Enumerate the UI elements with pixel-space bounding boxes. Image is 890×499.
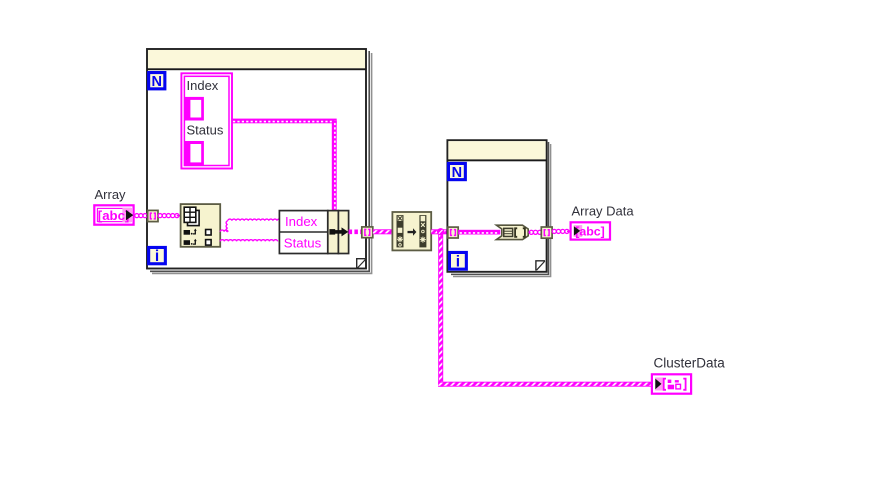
wire string squiggle: Index Array out1 to Bundle Index <box>220 219 281 232</box>
cluster wire vertical down to bundle node <box>332 121 337 211</box>
Bundle node middle column <box>328 211 339 254</box>
for loop 1 iteration terminal i <box>147 246 167 265</box>
cluster wire horizontal from cluster to corner <box>232 119 337 124</box>
for loop 1 folded corner <box>357 259 366 269</box>
for loop 2 count terminal N <box>447 162 467 181</box>
svg-text:N: N <box>152 74 162 90</box>
wire coil: node to loop 2 output tunnel <box>528 231 530 233</box>
cluster array indicator ClusterData <box>652 374 691 393</box>
svg-text:[abc]: [abc] <box>575 224 605 238</box>
tunnel output on loop 2 right border <box>541 227 552 238</box>
for loop 2 frame <box>447 140 546 272</box>
convert array-of-cluster node <box>392 212 431 250</box>
Bundle node output column <box>338 211 348 254</box>
for loop 2 iteration terminal i <box>448 251 468 271</box>
wire junction <box>437 228 444 235</box>
svg-text:Index: Index <box>285 214 318 229</box>
svg-text:N: N <box>452 165 462 181</box>
svg-text:ClusterData: ClusterData <box>654 356 726 371</box>
for loop 2 shadow inner <box>451 142 549 274</box>
for loop 2 folded corner <box>536 261 545 271</box>
wire hatched bottom run to ClusterData <box>438 382 652 387</box>
svg-text:Array Data: Array Data <box>572 204 635 219</box>
svg-text:Array: Array <box>95 187 127 202</box>
cluster string control 2 <box>185 141 204 165</box>
for loop 2 shadow outer <box>453 144 551 277</box>
for loop 1 frame <box>147 49 366 269</box>
for loop 1 count terminal N <box>147 71 166 90</box>
wire cluster dashed: bundle to output tunnel <box>349 229 362 234</box>
svg-text:i: i <box>456 253 460 270</box>
wire string-array coil: tunnel to Index Array <box>177 215 181 217</box>
string array control Array [abc] <box>94 205 133 224</box>
cluster string control 1 <box>185 97 204 121</box>
tunnel input on loop 2 left border <box>448 227 458 238</box>
for loop 1 subdiagram label bar <box>148 50 365 68</box>
Index Array function node <box>181 204 221 247</box>
tunnel output on loop 1 right border <box>362 227 373 238</box>
wire string squiggle: Index Array out2 to Bundle Status <box>220 240 277 242</box>
Bundle node named cells <box>279 211 327 254</box>
for loop 1 shadow inner <box>150 51 369 271</box>
svg-text:Status: Status <box>284 236 322 251</box>
svg-text:Index: Index <box>187 78 219 93</box>
cluster control (Index/Status) <box>181 73 232 168</box>
wire cluster dashed: tunnel to cluster-to-array <box>458 230 500 235</box>
wire array-of-cluster hatched: tunnel to convert node <box>373 229 393 234</box>
for loop 2 subdiagram label bar <box>448 141 545 159</box>
Bundle node arrow <box>329 227 348 236</box>
svg-text:i: i <box>155 248 159 265</box>
wire string-array coil: Array terminal to tunnel <box>135 214 139 218</box>
for loop 1 shadow outer <box>152 53 372 273</box>
string array indicator Array Data [abc] <box>571 222 610 239</box>
tunnel input on loop 1 left border <box>148 210 158 221</box>
wire hatched vertical branch down <box>438 232 443 387</box>
wire hatched: convert node to loop 2 tunnel <box>431 229 448 234</box>
Cluster To Array node <box>496 225 528 239</box>
wire coil: tunnel to Array Data <box>552 229 556 233</box>
svg-text:Status: Status <box>187 123 224 138</box>
svg-text:[abc]: [abc] <box>98 208 130 223</box>
